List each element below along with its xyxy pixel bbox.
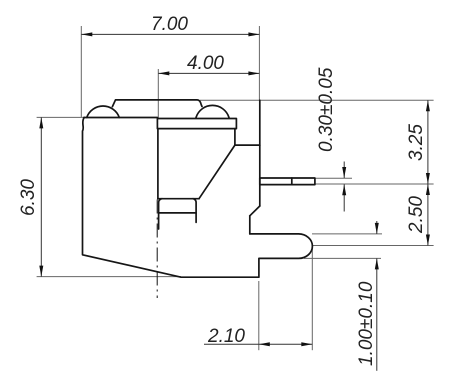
pin divider (291, 178, 293, 185)
extension line right of 2.10 dim (311, 247, 313, 351)
extension line pin top (315, 177, 352, 179)
right lower edge (249, 216, 251, 234)
leader 1.00 upper (376, 221, 378, 234)
svg-text:1.00±0.10: 1.00±0.10 (356, 281, 377, 366)
arrowhead 1.00 upper (375, 223, 379, 234)
arrowhead 7.00 right (248, 32, 259, 36)
tab right vertical (193, 199, 196, 223)
arrowhead 6.30 bottom (39, 266, 43, 277)
svg-text:2.10: 2.10 (207, 326, 245, 347)
raised cap (112, 100, 202, 107)
arrowhead 0.30 lower (342, 184, 346, 195)
dimension line 2.50 (427, 184, 429, 246)
left bump arc (87, 106, 120, 118)
leader 1.00 lower (376, 258, 378, 370)
extension line 2.50 bottom (313, 245, 434, 247)
extension line top surface to right dims (200, 99, 434, 101)
arrowhead 7.00 left (81, 32, 92, 36)
arrowhead 1.00 lower (375, 258, 379, 269)
dimension line 7.00 (81, 33, 259, 35)
extension line foot top (312, 233, 382, 235)
svg-text:6.30: 6.30 (18, 179, 39, 216)
extension line pin bottom (315, 183, 434, 185)
arrowhead 4.00 left (158, 71, 169, 75)
funnel right diagonal (199, 145, 235, 199)
svg-text:7.00: 7.00 (151, 14, 188, 35)
arrowhead 2.50 bottom (426, 235, 430, 246)
arrowhead 3.25 top (426, 100, 430, 111)
svg-text:4.00: 4.00 (187, 53, 224, 74)
svg-text:3.25: 3.25 (406, 124, 427, 161)
extension line left of 4.00 dim (157, 69, 159, 119)
arrowhead 4.00 right (248, 71, 259, 75)
leader 0.30 lower (343, 184, 345, 211)
arrowhead 3.25 bottom (426, 173, 430, 184)
right bump arc (196, 105, 229, 117)
ledge line (235, 144, 260, 146)
arrowhead 2.10 left (259, 342, 270, 346)
arrowhead 0.30 upper (342, 167, 346, 178)
foot outline (83, 117, 313, 277)
arrowhead 2.50 top (426, 184, 430, 195)
extension line top of 6.30 dim (37, 116, 84, 118)
extension line left of 2.10 dim (258, 281, 260, 350)
dimension line 2.10 (204, 343, 312, 345)
funnel bottom (158, 198, 199, 200)
centerline (156, 200, 158, 299)
arrowhead 6.30 top (39, 117, 43, 128)
leader 0.30 upper (343, 162, 345, 179)
right chamfer (250, 206, 260, 216)
extension line left of 7.00 dim (80, 26, 82, 117)
body right edge (259, 100, 261, 206)
dimension line 3.25 (427, 100, 429, 184)
clamp bar rectangle (157, 119, 236, 129)
extension line foot bottom (304, 257, 381, 259)
body top surface line (84, 117, 157, 119)
tab divider (159, 212, 197, 214)
tab left vertical (159, 199, 162, 229)
svg-text:0.30±0.05: 0.30±0.05 (316, 67, 337, 152)
arrowhead 2.10 right (301, 342, 312, 346)
extension line bottom of 6.30 dim (37, 276, 181, 278)
svg-text:2.50: 2.50 (406, 196, 427, 234)
dimension line 4.00 (158, 72, 259, 74)
funnel right wall upper (234, 129, 236, 146)
dimension line 6.30 (40, 117, 42, 276)
funnel left wall (157, 129, 159, 199)
pin rectangle (260, 178, 315, 185)
extension line right of 7.00 / 4.00 dims (258, 26, 260, 100)
